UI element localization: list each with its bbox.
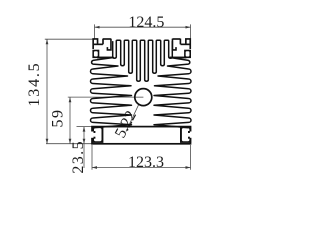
svg-text:134.5: 134.5 bbox=[26, 61, 43, 106]
svg-text:23.5: 23.5 bbox=[70, 140, 87, 173]
svg-text:123.3: 123.3 bbox=[128, 154, 164, 171]
svg-text:124.5: 124.5 bbox=[128, 14, 164, 31]
svg-text:59: 59 bbox=[49, 109, 66, 128]
